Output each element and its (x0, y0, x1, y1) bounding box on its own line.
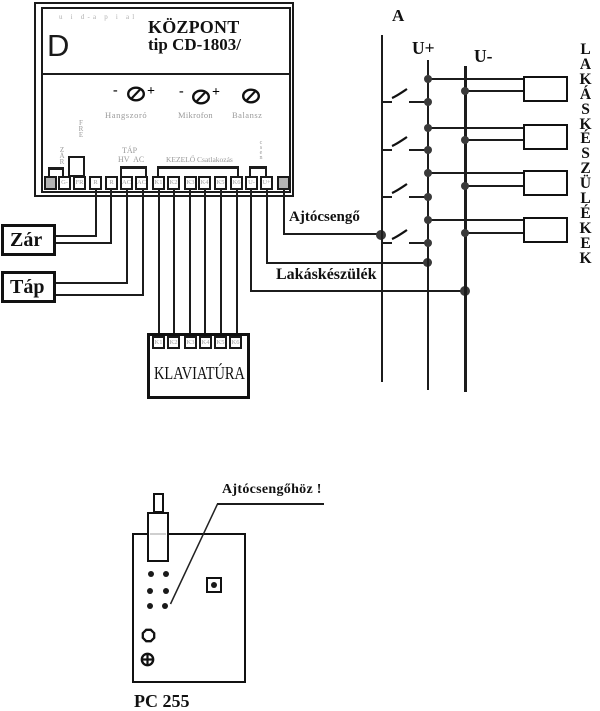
bracket over terminals 1-2 (48, 167, 64, 170)
terminal 1 (gray) (44, 176, 57, 190)
label Mikrofon (178, 110, 213, 120)
wire Zár 1 horizontal (56, 235, 97, 237)
PC 255 crossed circle (140, 652, 155, 667)
terminal 7 AC (135, 176, 148, 190)
rail A (381, 35, 383, 382)
potentiometer P2 minus (179, 84, 184, 100)
branch 1 U- wire (465, 90, 523, 92)
branch 3 switch blade (391, 180, 410, 196)
branch 2 U- dot (461, 136, 469, 144)
bracket over terminals U- U+ (249, 166, 267, 169)
PC 255 connector stub (153, 493, 164, 513)
keyboard terminal 2 (167, 336, 180, 349)
PC 255 square with dot (206, 577, 222, 593)
terminal 11 K4 (198, 176, 211, 190)
terminal 8 K1 (152, 176, 165, 190)
terminal 14 U- (245, 176, 258, 190)
keyboard terminal 4 (199, 336, 212, 349)
terminal 16 (gray) (277, 176, 290, 190)
Zár box (1, 224, 56, 256)
header divider line (42, 73, 290, 75)
PC 255 pin dot r1c1 (148, 571, 154, 577)
potentiometer P2 (Mikrofon) (191, 89, 211, 106)
PC 255 pentagon (141, 628, 156, 643)
label Ajtócsengőhöz ! (222, 482, 322, 498)
terminal 10 K3 (184, 176, 197, 190)
label U+ (412, 38, 435, 59)
vertical label LAKÁSKÉSZÜLÉKEK (578, 43, 593, 267)
branch 2 U- wire (465, 139, 523, 141)
wire Táp 1 vertical (126, 189, 128, 283)
wire Táp 1 horizontal (56, 282, 128, 284)
branch 4 U- wire (465, 232, 523, 234)
keyboard terminal 1 (152, 336, 165, 349)
potentiometer P1 (Hangszóró) (126, 86, 146, 103)
PC 255 box (132, 533, 246, 683)
wire Ajtócsengő horizontal (283, 233, 382, 235)
terminal 3 FR (73, 176, 86, 190)
keyboard terminal 3 (184, 336, 197, 349)
title KÖZPONT (148, 17, 239, 38)
gray vertical text above relay (77, 120, 85, 138)
branch 3 call dot (424, 193, 432, 201)
branch 3 switch stub (383, 196, 392, 198)
branch 4 switch wire (409, 242, 428, 244)
faint box edge through connector (150, 533, 166, 535)
wire U- feed vertical (250, 189, 252, 291)
terminal 9 K2 (167, 176, 180, 190)
branch 2 U+ wire (428, 127, 523, 129)
apartment unit box 1 (523, 76, 568, 102)
branch 3 U- wire (465, 185, 523, 187)
terminal 4 R (89, 176, 102, 190)
branch 3 U+ dot (424, 169, 432, 177)
branch 2 call dot (424, 146, 432, 154)
rail U+ (427, 60, 429, 390)
PC 255 pin dot r3c2 (162, 603, 168, 609)
wire K4 (204, 189, 206, 337)
central unit outer box (34, 2, 294, 197)
Zár label (10, 229, 42, 252)
wire K2 (173, 189, 175, 337)
branch 1 U+ wire (428, 78, 523, 80)
wire Zár 1 vertical (95, 189, 97, 237)
junction dot U- feed (460, 286, 470, 296)
branch 2 switch stub (383, 149, 392, 151)
label underline (217, 503, 324, 505)
wire K5 (220, 189, 222, 337)
branch 2 switch blade (391, 133, 410, 149)
terminal 5 R (105, 176, 118, 190)
Táp box (1, 271, 56, 303)
PC 255 connector body (147, 512, 169, 562)
potentiometer P3 (Balansz) (241, 88, 261, 105)
faint top text (59, 13, 144, 21)
KLAVIATÚRA box (147, 333, 250, 399)
branch 1 switch stub (383, 101, 392, 103)
label A (392, 6, 404, 26)
branch 4 U+ dot (424, 216, 432, 224)
KLAVIATÚRA label (154, 363, 245, 384)
branch 4 switch blade (391, 226, 410, 242)
terminal 13 K6 (230, 176, 243, 190)
branch 4 switch stub (383, 242, 392, 244)
branch 1 switch wire (409, 101, 428, 103)
branch 2 U+ dot (424, 124, 432, 132)
terminal 15 U+ (260, 176, 273, 190)
potentiometer P2 plus (212, 85, 220, 101)
wire K1 (158, 189, 160, 337)
keyboard terminal 5 (214, 336, 227, 349)
branch 4 U- dot (461, 229, 469, 237)
terminal 6 AC (120, 176, 133, 190)
wire Zár 2 horizontal (56, 242, 112, 244)
label Balansz (232, 110, 262, 120)
branch 1 U- dot (461, 87, 469, 95)
apartment unit box 3 (523, 170, 568, 196)
keyboard terminal 6 (229, 336, 242, 349)
central unit inner box (41, 7, 291, 193)
branch 1 call dot (424, 98, 432, 106)
bracket over terminals K1-K6 (157, 166, 239, 169)
junction dot U+ feed (423, 258, 432, 267)
terminal 2 G- (58, 176, 71, 190)
wire U+ feed horizontal (266, 262, 428, 264)
wire U+ feed vertical (266, 189, 268, 264)
potentiometer P1 minus (113, 83, 118, 99)
label KEZELŐ Csatlakozás (166, 155, 233, 164)
wire K6 (236, 189, 238, 337)
wire Táp 2 horizontal (56, 294, 144, 296)
wire Táp 2 vertical (142, 189, 144, 295)
gray vertical text near U+ (257, 141, 265, 161)
branch 3 U+ wire (428, 172, 523, 174)
branch 3 U- dot (461, 182, 469, 190)
label D (47, 28, 69, 64)
PC 255 square inner dot (211, 582, 217, 588)
label Ajtócsengő (289, 209, 360, 226)
leader line to doorbell output (168, 502, 220, 606)
wire K3 (189, 189, 191, 337)
label PC 255 (134, 691, 190, 711)
label TÁP / HV AC (122, 146, 137, 155)
apartment unit box 2 (523, 124, 568, 150)
branch 2 switch wire (409, 149, 428, 151)
bracket over terminals AC AC (120, 166, 147, 169)
gray vertical text ZÁR (58, 147, 66, 165)
relay box above terminal FR (68, 156, 85, 177)
branch 4 U+ wire (428, 219, 523, 221)
terminal 12 K5 (214, 176, 227, 190)
wire Zár 2 vertical (110, 189, 112, 243)
PC 255 pin dot r2c2 (163, 588, 169, 594)
branch 3 switch wire (409, 196, 428, 198)
wire Ajtócsengő vertical (283, 189, 285, 235)
branch 1 switch blade (391, 85, 410, 101)
branch 4 call dot (424, 239, 432, 247)
Táp label (10, 276, 44, 299)
junction dot on A line (376, 230, 386, 240)
potentiometer P1 plus (147, 84, 155, 100)
wire U- feed horizontal (250, 290, 466, 292)
PC 255 pin dot r1c2 (163, 571, 169, 577)
PC 255 pin dot r2c1 (147, 588, 153, 594)
label Lakáskészülék (276, 266, 376, 284)
PC 255 pin dot r3c1 (147, 603, 153, 609)
title tip CD-1803/ (148, 35, 241, 55)
rail U- (464, 66, 467, 392)
label Hangszóró (105, 110, 147, 120)
label U- (474, 46, 492, 67)
branch 1 U+ dot (424, 75, 432, 83)
apartment unit box 4 (523, 217, 568, 243)
